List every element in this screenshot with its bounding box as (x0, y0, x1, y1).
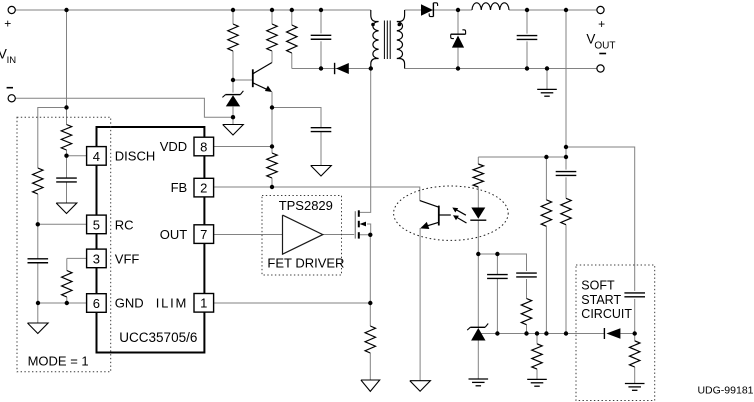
svg-text:OUT: OUT (594, 40, 615, 51)
svg-text:VFF: VFF (115, 251, 140, 266)
svg-text:+: + (598, 17, 605, 31)
svg-text:5: 5 (93, 217, 100, 232)
svg-text:SOFT: SOFT (581, 279, 615, 293)
svg-text:TPS2829: TPS2829 (279, 198, 333, 213)
svg-text:FET DRIVER: FET DRIVER (267, 256, 344, 271)
svg-text:UDG-99181: UDG-99181 (697, 385, 753, 397)
svg-text:CIRCUIT: CIRCUIT (581, 307, 632, 321)
svg-text:8: 8 (200, 139, 207, 154)
svg-text:OUT: OUT (160, 227, 188, 242)
svg-text:3: 3 (93, 251, 100, 266)
svg-text:MODE = 1: MODE = 1 (28, 354, 89, 369)
svg-text:VDD: VDD (160, 139, 187, 154)
svg-text:1: 1 (200, 296, 207, 311)
svg-text:GND: GND (115, 296, 144, 311)
svg-text:7: 7 (200, 227, 207, 242)
svg-text:4: 4 (93, 149, 100, 164)
svg-text:+: + (4, 17, 11, 31)
svg-text:DISCH: DISCH (115, 148, 155, 163)
svg-text:UCC35705/6: UCC35705/6 (119, 330, 197, 345)
svg-text:IN: IN (7, 55, 17, 66)
svg-text:START: START (581, 293, 621, 307)
svg-text:FB: FB (171, 180, 188, 195)
svg-text:2: 2 (200, 181, 207, 196)
svg-text:RC: RC (115, 217, 134, 232)
svg-text:ILIM: ILIM (156, 296, 188, 311)
svg-text:6: 6 (93, 296, 100, 311)
